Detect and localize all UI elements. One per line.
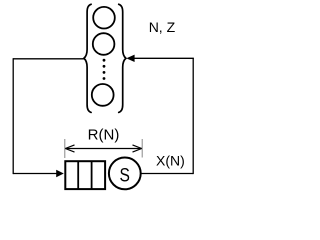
wire: bottom-left horizontal into queue (13, 173, 57, 175)
queue divider 1 (77, 161, 79, 189)
svg-text:S: S (119, 164, 129, 186)
R(N) dimension left tick (64, 139, 66, 158)
R(N) dimension right tick (141, 139, 143, 158)
R(N) dimension line (65, 148, 141, 150)
svg-text:X(N): X(N) (156, 153, 185, 169)
queue box (65, 161, 105, 189)
wire: top-right horizontal toward brace (135, 57, 194, 59)
svg-text:R(N): R(N) (88, 126, 120, 143)
terminal circle 2 (93, 33, 115, 55)
wire: left vertical (12, 58, 14, 174)
terminal circle 1 (93, 7, 115, 29)
svg-text:N, Z: N, Z (149, 19, 176, 35)
right brace } (119, 4, 126, 112)
wire: left horizontal from brace tip (13, 58, 84, 60)
arrowhead into queue (56, 170, 64, 177)
queue divider 2 (91, 161, 93, 189)
server circle S (109, 158, 141, 190)
R(N) right open arrowhead (133, 145, 142, 152)
left brace { (84, 4, 91, 112)
arrowhead into right brace (126, 55, 134, 62)
wire: right vertical (192, 58, 194, 174)
R(N) left open arrowhead (65, 145, 74, 152)
terminal circle 3 (92, 84, 114, 106)
vertical ellipsis dots (103, 59, 106, 80)
wire: server output horizontal (141, 173, 193, 175)
